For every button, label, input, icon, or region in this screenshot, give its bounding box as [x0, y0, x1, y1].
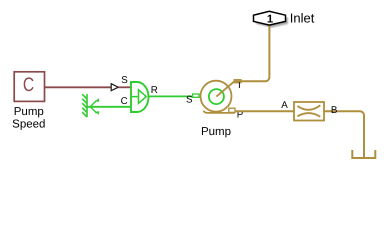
svg-text:1: 1 [267, 13, 273, 25]
pump volute tangent [204, 111, 236, 113]
inlet port hexagon [254, 11, 286, 25]
svg-text:C: C [121, 96, 128, 107]
svg-text:C: C [23, 74, 34, 96]
svg-text:R: R [151, 85, 158, 96]
pump shaft circle [209, 89, 224, 104]
pump P port square [229, 108, 235, 112]
svg-text:B: B [331, 105, 338, 116]
hydraulic reference tank [352, 150, 375, 158]
svg-text:Inlet: Inlet [290, 10, 315, 25]
constant block Pump Speed [14, 72, 44, 102]
wire signal from Pump Speed to S [45, 86, 111, 88]
pump shaft diagonal [216, 81, 234, 96]
svg-text:S: S [121, 75, 128, 86]
svg-text:A: A [281, 100, 288, 111]
pump T port square [234, 80, 241, 83]
pump body circle [201, 81, 232, 112]
arrowhead signal [111, 84, 118, 91]
pump S port square [193, 94, 199, 97]
ideal angular velocity source block [131, 82, 149, 112]
wire C from ground to block [87, 106, 131, 108]
wire B to tank [324, 111, 364, 157]
wire R to pump S [148, 95, 192, 97]
svg-text:Pump: Pump [201, 126, 231, 138]
wire T to inlet [235, 24, 269, 81]
wire P to orifice A [235, 110, 294, 112]
svg-text:Speed: Speed [12, 119, 45, 131]
fixed orifice block [294, 102, 324, 121]
wire signal into S port [118, 86, 131, 88]
mechanical rotational reference (ground) [82, 94, 96, 117]
svg-text:Pump: Pump [14, 106, 44, 118]
inlet hexagon shadow [256, 14, 288, 28]
svg-text:S: S [186, 94, 193, 105]
